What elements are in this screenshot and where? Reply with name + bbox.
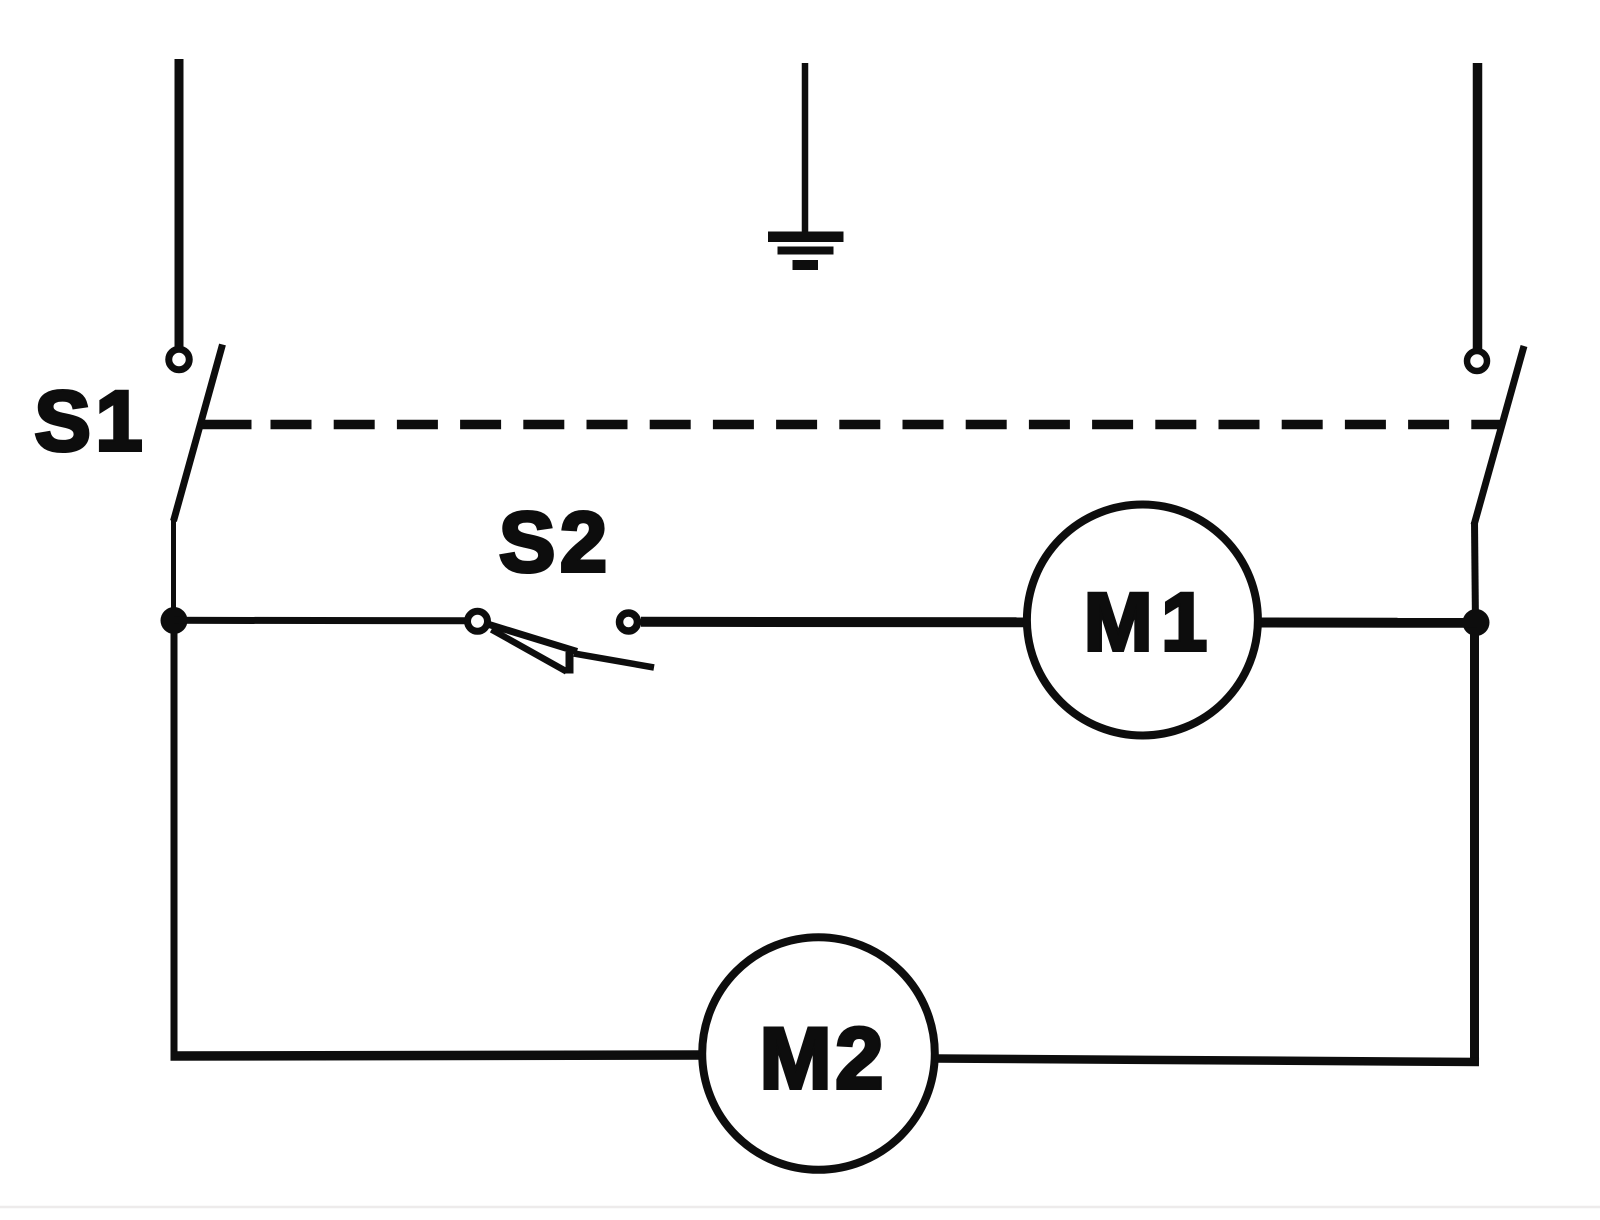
- svg-text:M2: M2: [760, 1011, 887, 1107]
- svg-text:S1: S1: [35, 374, 148, 468]
- svg-text:M1: M1: [1084, 577, 1216, 668]
- svg-text:S2: S2: [499, 495, 612, 589]
